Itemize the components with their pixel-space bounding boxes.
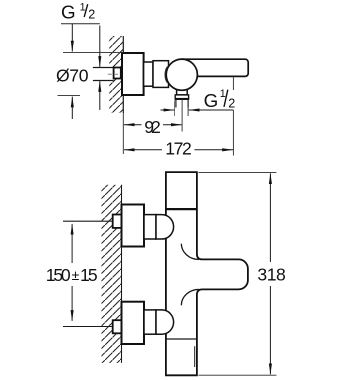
pipe fitting in wall [114,68,121,79]
lower supply line [63,326,113,328]
lower union tail in wall [113,320,122,333]
connector B (valve housing) [153,61,169,88]
escutcheon top view [122,53,144,95]
svg-text:92: 92 [144,117,161,137]
wall face line bottom view [121,185,123,363]
svg-text:318: 318 [257,265,286,285]
dim 150+-15 lower arrow [71,286,73,321]
dia70 upper tick [63,52,123,54]
label shelf line under G1/2 [61,23,100,25]
upper escutcheon [122,205,145,247]
svg-text:Ø70: Ø70 [56,65,89,85]
svg-text:±: ± [72,267,80,283]
upper union nut [144,215,156,239]
outlet collar [175,95,188,99]
wall face line top view [122,36,124,113]
dim 92 left arrow [124,124,142,126]
connector A [144,62,153,86]
mixer body with lever (bottom view) [166,172,248,375]
svg-text:150: 150 [46,265,71,285]
lower escutcheon [122,302,145,344]
dim 318 lower arrow [269,286,271,374]
lower union bulge [156,310,174,334]
svg-text:15: 15 [80,265,98,285]
dim 318 bottom extension line [199,374,277,376]
body lower divider [166,338,197,340]
dia70 dim lower arrow [71,97,73,119]
body top cap divider (thick) [166,208,197,210]
wall (hatched) top view [109,36,123,113]
outlet nipple walls [175,99,177,107]
outlet left extension line [174,101,176,117]
dim 92 right arrow [163,124,182,126]
upper supply line [63,220,113,222]
dim 150+-15 upper arrow [71,224,73,263]
dim 172 left arrow [124,149,162,151]
G1/2 supply dim upper arrow [99,26,101,67]
svg-text:2: 2 [88,8,95,22]
svg-text:1: 1 [220,88,226,100]
svg-text:2: 2 [228,96,235,110]
dim 318 top extension line [199,171,277,173]
dim 318 upper arrow [269,173,271,262]
G1/2 supply dim lower arrow [99,81,101,110]
lower union nut [144,310,156,334]
outlet centre extension line [181,99,183,131]
supply pipe in wall [93,68,114,81]
upper union bulge [156,215,174,239]
outlet right extension line [187,99,189,116]
svg-text:G: G [61,2,76,23]
temperature handle inner edge line [194,346,196,367]
upper swoosh contour at lever [181,244,199,260]
outlet neck [177,84,188,95]
wall face extension line down to dimension lines [122,113,124,154]
mixer body circle [166,59,197,90]
lower swoosh contour at lever [181,289,199,305]
svg-text:1: 1 [80,2,86,14]
cartridge cap arcs behind circle [165,67,167,83]
handle-end extension line segments [232,77,234,90]
outlet G1/2 dim left-point arrow with tail [189,109,234,111]
outlet G1/2 dim right-point arrow [161,109,175,111]
dia70 dim upper arrow [71,24,73,52]
wall (hatched) bottom view [102,185,122,363]
upper union tail in wall [113,215,122,228]
dia70 lower tick [58,95,81,97]
svg-text:G: G [204,90,219,111]
svg-text:172: 172 [165,138,192,158]
lever handle top view [179,59,248,76]
pipe centerline dashes [108,73,119,75]
dim 172 right arrow [195,149,234,151]
